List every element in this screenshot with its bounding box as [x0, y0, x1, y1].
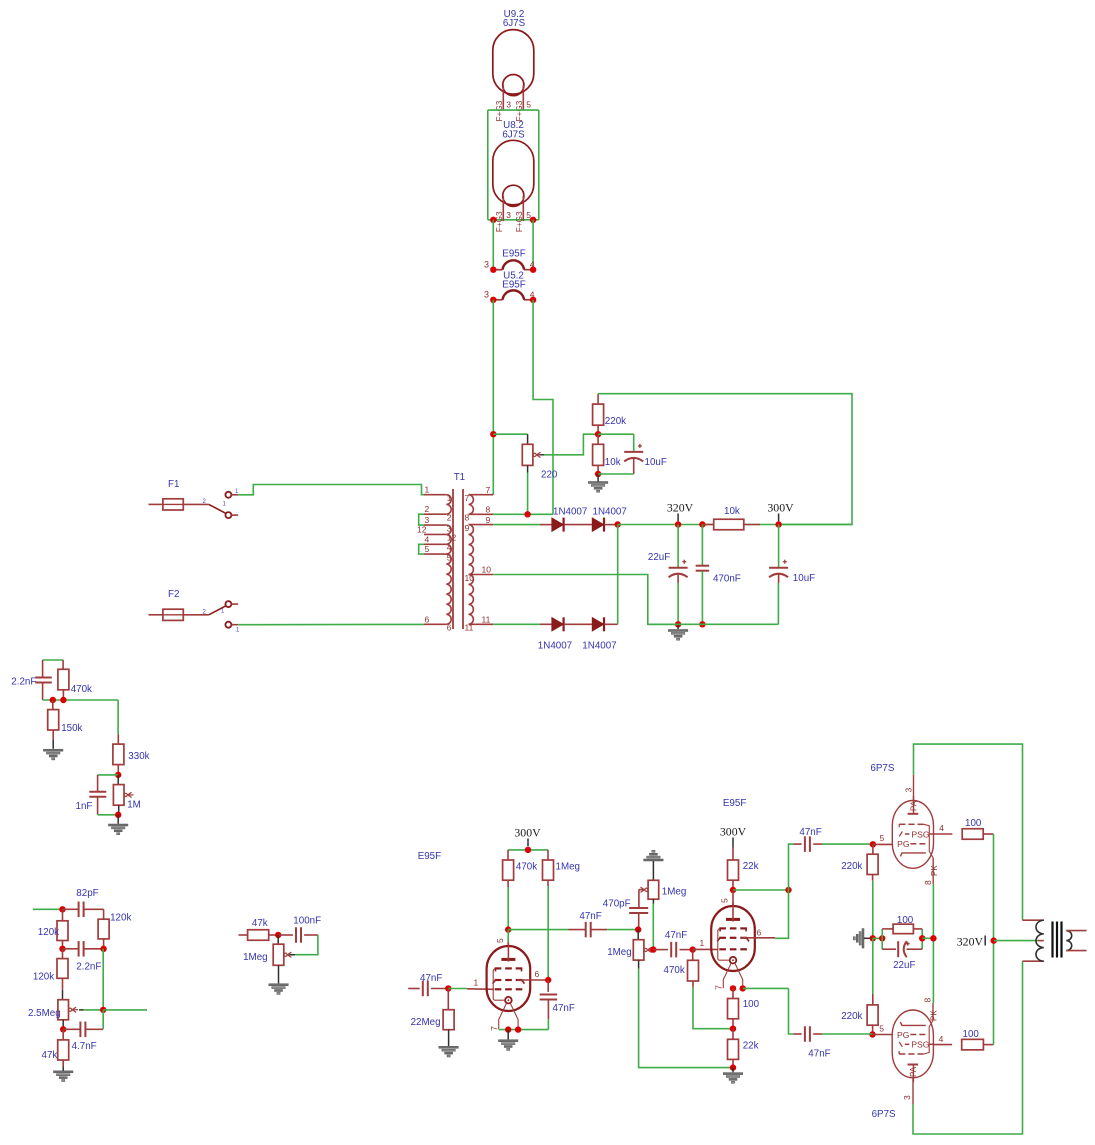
node V2 grid — [869, 1031, 875, 1037]
svg-text:470k: 470k — [71, 684, 92, 695]
wire center tap to OT — [994, 940, 1038, 942]
svg-text:5: 5 — [879, 1024, 884, 1034]
svg-text:F+G3: F+G3 — [495, 211, 504, 232]
pin6 lead stage1 — [517, 979, 548, 981]
node bias2 — [730, 1026, 736, 1032]
wire T1 pin 11 to diodes — [493, 623, 540, 625]
svg-text:2: 2 — [447, 513, 452, 523]
pin5 lead V2 — [873, 1034, 893, 1036]
wire 1nF top — [98, 774, 119, 776]
svg-text:PA: PA — [910, 800, 919, 811]
T1 secondary winding 9-10 — [469, 525, 474, 575]
node 4.7nF left — [60, 1026, 66, 1032]
node 470nF top — [699, 521, 705, 527]
node wiper — [100, 1007, 106, 1013]
tube U2 E95F stage2 — [711, 906, 755, 971]
svg-text:1M: 1M — [127, 800, 141, 811]
wire T1 pin 8 — [493, 513, 553, 515]
svg-text:2.2nF: 2.2nF — [76, 962, 101, 973]
svg-text:470k: 470k — [664, 965, 685, 976]
resistor 470k (fb) — [62, 660, 64, 669]
switch S2 — [209, 606, 226, 615]
svg-text:1: 1 — [700, 938, 705, 948]
pin8 PK lead V2 — [932, 1003, 934, 1020]
node ground bus 1 — [675, 621, 681, 627]
svg-text:PG: PG — [897, 839, 910, 849]
svg-text:150k: 150k — [61, 723, 82, 734]
wire F1 to T1 pin 1 — [238, 485, 424, 495]
svg-text:82pF: 82pF — [76, 888, 98, 899]
node fb 150k — [50, 697, 56, 703]
capacitor 47nF (to V1 grid) — [789, 844, 794, 890]
node 1M bottom — [115, 812, 121, 818]
svg-text:100: 100 — [963, 1029, 980, 1040]
resistor 220k (V2 grid) — [872, 938, 874, 994]
potentiometer 1M — [117, 775, 119, 785]
wire pot1 wiper to 470pF — [639, 889, 643, 891]
tube V2 6P7S — [892, 1010, 933, 1078]
node cathode column — [930, 935, 936, 941]
resistor 22Meg — [447, 989, 449, 1010]
svg-text:PK: PK — [930, 1010, 939, 1021]
resistor 1Meg (screen) — [547, 850, 549, 860]
node 300V stage1 — [525, 847, 531, 853]
wire grid1 — [448, 988, 467, 990]
wire cathode ground bus stage1 — [499, 1029, 549, 1031]
svg-text:4.7nF: 4.7nF — [72, 1041, 97, 1052]
svg-text:6: 6 — [757, 928, 762, 938]
resistor 150k — [52, 700, 54, 710]
svg-text:1N4007: 1N4007 — [593, 506, 627, 517]
ground tone — [62, 1067, 64, 1071]
svg-text:47nF: 47nF — [665, 930, 687, 941]
output transformer OT primary — [1036, 920, 1044, 961]
T1 jog wire 2-3 — [419, 514, 424, 525]
svg-text:3: 3 — [484, 260, 489, 270]
svg-text:320V: 320V — [957, 935, 984, 949]
svg-text:PA: PA — [909, 1066, 918, 1077]
T1 secondary leads — [469, 494, 494, 496]
ground vol pot — [269, 984, 289, 986]
svg-text:8: 8 — [923, 880, 933, 885]
svg-text:2.5Meg: 2.5Meg — [28, 1008, 61, 1019]
node V1 grid — [870, 841, 876, 847]
wire 2.5Meg wiper — [79, 1009, 84, 1011]
svg-text:120k: 120k — [33, 972, 54, 983]
svg-text:470pF: 470pF — [603, 899, 631, 910]
node bracket right — [919, 935, 925, 941]
pin5 lead stage2 — [732, 890, 734, 906]
wire coupling to stage2 — [607, 929, 638, 931]
svg-text:6P7S: 6P7S — [872, 1109, 896, 1120]
wire bracket to cathode column — [922, 937, 933, 939]
resistor 470k (grid2) — [692, 950, 694, 961]
svg-text:PG: PG — [897, 1030, 910, 1040]
svg-text:10: 10 — [465, 573, 475, 583]
svg-text:10: 10 — [482, 565, 492, 575]
wire fb to 330k — [117, 700, 119, 735]
svg-text:4: 4 — [447, 543, 452, 553]
wire cathode2 right — [743, 987, 789, 989]
capacitor 4.7nF — [63, 1028, 79, 1030]
svg-text:T1: T1 — [454, 472, 465, 483]
svg-text:1Meg: 1Meg — [556, 862, 581, 873]
svg-text:1N4007: 1N4007 — [582, 641, 616, 652]
wire V1 anode loop to OT — [914, 744, 1023, 920]
svg-text:5: 5 — [447, 552, 452, 562]
svg-text:1Meg: 1Meg — [243, 952, 268, 963]
svg-text:7: 7 — [489, 1026, 499, 1031]
svg-text:22uF: 22uF — [893, 960, 915, 971]
svg-text:6J7S: 6J7S — [503, 18, 526, 29]
node tone C — [100, 946, 106, 952]
wire pot1 bottom to pot2 wiper — [652, 899, 654, 903]
pin1 lead stage2 — [693, 948, 718, 950]
wire heater right leg to T1 pin 8 — [533, 300, 553, 515]
ground bias network — [862, 929, 864, 949]
wire pin6 to anode node — [775, 890, 788, 938]
svg-text:8: 8 — [923, 998, 933, 1003]
wire anode2 right — [733, 889, 789, 891]
svg-text:1: 1 — [474, 978, 479, 988]
pin5 lead V1 — [873, 843, 893, 845]
resistor 22k (cathode2) — [732, 1029, 734, 1040]
wire bias to bracket — [873, 937, 882, 939]
wire pot bottom to winding-8 wire — [527, 465, 529, 472]
wire rectifier lower to rail — [617, 525, 619, 625]
svg-text:12: 12 — [417, 524, 427, 534]
svg-text:12: 12 — [447, 533, 457, 543]
potentiometer 2.5Meg bottom lead — [62, 1020, 64, 1030]
capacitor 47nF (input) — [408, 988, 420, 990]
svg-text:3: 3 — [903, 788, 913, 793]
svg-text:2: 2 — [425, 504, 430, 514]
svg-text:3: 3 — [902, 1095, 912, 1100]
node cathode stage1 — [505, 1026, 511, 1032]
svg-text:4: 4 — [939, 1034, 944, 1044]
diode D4 1N4007 — [592, 618, 603, 631]
resistor 47k (vol) — [239, 934, 248, 936]
node 330k bottom — [115, 772, 121, 778]
diode D2 1N4007 — [592, 518, 603, 531]
svg-text:11: 11 — [465, 623, 474, 633]
svg-text:1nF: 1nF — [76, 801, 93, 812]
resistor 10k (rail) — [702, 524, 713, 526]
svg-text:6: 6 — [425, 614, 430, 624]
capacitor 2.2nF (tone) — [63, 948, 78, 950]
node stage2 input — [635, 926, 641, 932]
svg-text:100: 100 — [743, 999, 760, 1010]
pin3 lead V1 — [913, 775, 915, 800]
svg-text:22k: 22k — [743, 1041, 759, 1052]
svg-text:PSG: PSG — [911, 829, 929, 839]
resistor 220k (V1 grid) — [872, 844, 874, 854]
svg-text:5: 5 — [495, 938, 505, 943]
svg-text:E95F: E95F — [502, 249, 525, 260]
T1 primary winding 5-6 — [446, 554, 451, 624]
wire 1nF bottom — [98, 814, 119, 816]
svg-text:10uF: 10uF — [793, 573, 815, 584]
svg-text:470k: 470k — [516, 862, 537, 873]
T1 secondary winding 7-8 — [469, 495, 474, 515]
OT secondary — [1066, 931, 1071, 951]
pin3 lead V2 — [912, 1078, 914, 1105]
node grid2 — [690, 946, 696, 952]
svg-text:120k: 120k — [38, 927, 59, 938]
potentiometer 1Meg (pot2) — [637, 930, 639, 940]
svg-text:5: 5 — [880, 833, 885, 843]
wire F2 to T1 pin 6 — [238, 623, 424, 625]
svg-text:7: 7 — [465, 493, 470, 503]
capacitor 47nF (screen bypass) — [547, 980, 549, 992]
svg-text:100nF: 100nF — [293, 916, 321, 927]
node screen stage1 — [545, 977, 551, 983]
svg-text:1Meg: 1Meg — [607, 947, 632, 958]
node fb 470k — [60, 697, 66, 703]
svg-text:E95F: E95F — [418, 851, 441, 862]
capacitor 10uF (bias filter) — [624, 451, 643, 453]
wire 300V stage1 — [508, 849, 548, 851]
svg-text:7: 7 — [486, 485, 491, 495]
wire heater left leg to T1 pin 7 — [492, 300, 494, 495]
svg-text:22uF: 22uF — [648, 552, 670, 563]
tube V1 6P7S — [892, 801, 933, 869]
svg-text:E95F: E95F — [723, 798, 746, 809]
node pot2 wiper — [650, 946, 656, 952]
svg-text:5: 5 — [425, 544, 430, 554]
svg-text:10uF: 10uF — [645, 457, 667, 468]
node grid1 — [445, 985, 451, 991]
ground 22Meg — [448, 1030, 450, 1046]
ground stage1 — [507, 1030, 509, 1040]
ground 150k — [52, 740, 54, 749]
svg-text:220k: 220k — [605, 416, 626, 427]
svg-text:3: 3 — [506, 210, 511, 220]
svg-text:320V: 320V — [667, 501, 694, 515]
pin6 lead stage2 — [742, 937, 776, 939]
node cathode2 — [730, 985, 736, 991]
resistor 120k b — [98, 919, 109, 939]
capacitor 47nF (to V2 grid) — [789, 988, 794, 1034]
svg-text:22k: 22k — [743, 861, 759, 872]
wire tone C down — [102, 949, 104, 1010]
node rectifier output — [615, 521, 621, 527]
svg-text:6: 6 — [535, 969, 540, 979]
pin8 PK lead V1 — [932, 858, 934, 884]
svg-text:4: 4 — [425, 534, 430, 544]
svg-text:1: 1 — [447, 493, 452, 503]
wire V1 screen to center column — [993, 834, 995, 941]
node bracket left — [879, 935, 885, 941]
capacitor 470pF — [629, 907, 648, 909]
wire divider mid to 10uF — [598, 433, 634, 435]
svg-text:47nF: 47nF — [553, 1003, 575, 1014]
svg-text:100: 100 — [965, 818, 982, 829]
wire T1 pin 9 to diodes — [493, 524, 540, 526]
wire pot wiper to divider — [540, 454, 545, 456]
tube U1 E95F stage1 — [487, 946, 531, 1011]
capacitor 47nF (coupling 1-2) — [569, 929, 586, 931]
wire 2.2nF/470k top — [43, 659, 64, 661]
svg-text:47nF: 47nF — [808, 1049, 830, 1060]
wire V2 anode loop to OT — [913, 961, 1023, 1134]
svg-text:22Meg: 22Meg — [411, 1017, 441, 1028]
ground 1M — [117, 815, 119, 824]
svg-text:1Meg: 1Meg — [662, 887, 687, 898]
node vol top — [275, 932, 281, 938]
wire 470k to cathode node — [693, 987, 733, 1028]
svg-text:1N4007: 1N4007 — [553, 506, 587, 517]
svg-text:5: 5 — [720, 898, 730, 903]
capacitor 82pF — [63, 908, 78, 910]
capacitor 2.2nF (fb) — [42, 660, 44, 677]
svg-text:6J7S: 6J7S — [502, 130, 525, 141]
wire pot2 bottom down — [638, 960, 640, 969]
node center tap — [991, 937, 997, 943]
diode D1 1N4007 — [552, 518, 563, 531]
wire to E95F filaments — [492, 220, 494, 270]
svg-text:330k: 330k — [128, 751, 149, 762]
svg-text:47k: 47k — [42, 1050, 58, 1061]
resistor 100 (cathode2) — [732, 988, 734, 998]
wire 320V rail — [618, 524, 852, 526]
resistor 47k (tone) — [62, 1029, 64, 1040]
node anode — [505, 926, 511, 932]
svg-text:11: 11 — [482, 615, 491, 625]
diode D3 1N4007 — [552, 618, 563, 631]
capacitor 470nF — [701, 525, 703, 566]
svg-text:6: 6 — [447, 623, 452, 633]
T1 secondary winding 10-11 — [469, 575, 474, 625]
ground main — [677, 624, 679, 629]
resistor 120k c — [62, 949, 64, 959]
wire V2 screen to center column — [993, 941, 995, 1045]
wire pot top — [493, 433, 527, 435]
wire 100nF to wiper — [295, 935, 318, 955]
resistor 330k — [117, 735, 119, 745]
ground divider — [597, 474, 599, 482]
capacitor 1nF — [97, 775, 99, 792]
wire tone input stub — [33, 908, 63, 910]
OT core — [1051, 922, 1053, 958]
node ground bus 2 — [699, 621, 705, 627]
svg-text:9: 9 — [486, 515, 491, 525]
capacitor 22uF (reservoir) — [677, 525, 679, 568]
svg-text:10k: 10k — [605, 457, 621, 468]
svg-text:300V: 300V — [767, 501, 794, 515]
node 300V — [775, 521, 781, 527]
svg-text:1: 1 — [425, 485, 430, 495]
potentiometer 2.5Meg — [58, 1000, 69, 1020]
potentiometer 1Meg (pot1) — [648, 880, 659, 899]
svg-text:E95F: E95F — [502, 280, 525, 291]
resistor 220k (divider) — [597, 394, 599, 404]
T1 jog wire 4-5 — [419, 544, 424, 554]
potentiometer 220 — [522, 444, 533, 465]
svg-text:100: 100 — [897, 915, 914, 926]
svg-text:4: 4 — [939, 823, 944, 833]
ground top (pot1) — [644, 859, 664, 861]
node heater chain right — [530, 217, 536, 223]
T1 primary winding 1-2 — [446, 495, 451, 515]
svg-text:PK: PK — [930, 865, 939, 876]
svg-text:9: 9 — [465, 523, 470, 533]
node tone B — [59, 946, 65, 952]
wire fb node — [43, 699, 119, 701]
svg-text:470nF: 470nF — [713, 574, 741, 585]
wire wiper stub out — [103, 1009, 147, 1011]
node divider mid — [595, 431, 601, 437]
svg-text:3: 3 — [484, 290, 489, 300]
capacitor 100nF — [278, 934, 293, 936]
wire U9.2 to U8.2 heater loop — [488, 109, 539, 111]
node heater-pot junction — [490, 431, 496, 437]
resistor 22k (anode2) — [732, 848, 734, 861]
wire anode node — [507, 887, 509, 930]
svg-text:8: 8 — [486, 505, 491, 515]
wire anode to tube pin5 — [507, 930, 509, 943]
wire 10uF bottom — [598, 473, 634, 475]
capacitor 47nF (coupling to grid2) — [653, 949, 668, 951]
svg-text:F1: F1 — [168, 479, 179, 490]
node tone A — [59, 906, 65, 912]
svg-text:7: 7 — [714, 985, 724, 990]
wire ground bus — [648, 623, 779, 625]
wire screen node — [547, 886, 549, 980]
svg-text:220k: 220k — [841, 1011, 862, 1022]
resistor 470k (anode) — [507, 850, 509, 860]
svg-text:2.2nF: 2.2nF — [11, 677, 36, 688]
node stage2 ground — [730, 1064, 736, 1070]
wire T1 pin 10 center tap to ground — [493, 575, 678, 625]
svg-text:F+G3: F+G3 — [515, 211, 524, 232]
wire 220k top to 300V rail loop — [598, 394, 852, 525]
svg-text:120k: 120k — [110, 913, 131, 924]
svg-text:5: 5 — [526, 99, 531, 109]
svg-text:220: 220 — [541, 470, 558, 481]
wire V1 cathode down — [932, 884, 934, 1003]
bias network 100 + 22uF — [881, 929, 883, 949]
T1 primary leads — [424, 494, 446, 496]
node heater chain left — [490, 217, 496, 223]
svg-text:PSG: PSG — [911, 1040, 929, 1050]
node bias left — [870, 935, 876, 941]
pin4 lead V2 + resistor 100 — [933, 1044, 952, 1046]
node divider bottom — [595, 471, 601, 477]
svg-text:F2: F2 — [168, 589, 179, 600]
ground stage2 — [732, 1068, 734, 1073]
svg-text:220k: 220k — [841, 861, 862, 872]
node screen2 tie — [785, 887, 791, 893]
T1 primary winding 3-5 — [446, 525, 451, 534]
capacitor 10uF (300V filter) — [778, 525, 780, 568]
pin1 lead stage1 — [467, 988, 494, 991]
node pot bottom on wire 8 — [524, 511, 530, 517]
wire anode to coupling — [508, 929, 568, 931]
wire wiper down to 4.7nF — [102, 1010, 104, 1029]
resistor 10k (divider) — [597, 434, 599, 444]
switch S1 — [209, 504, 226, 513]
svg-text:8: 8 — [465, 513, 470, 523]
svg-text:6P7S: 6P7S — [870, 763, 894, 774]
svg-text:300V: 300V — [514, 826, 541, 840]
svg-text:10k: 10k — [724, 506, 740, 517]
svg-text:1N4007: 1N4007 — [538, 641, 572, 652]
svg-text:47nF: 47nF — [579, 911, 601, 922]
pin4 lead V1 + resistor 100 — [934, 833, 953, 835]
svg-text:300V: 300V — [720, 825, 747, 839]
svg-text:3: 3 — [506, 99, 511, 109]
